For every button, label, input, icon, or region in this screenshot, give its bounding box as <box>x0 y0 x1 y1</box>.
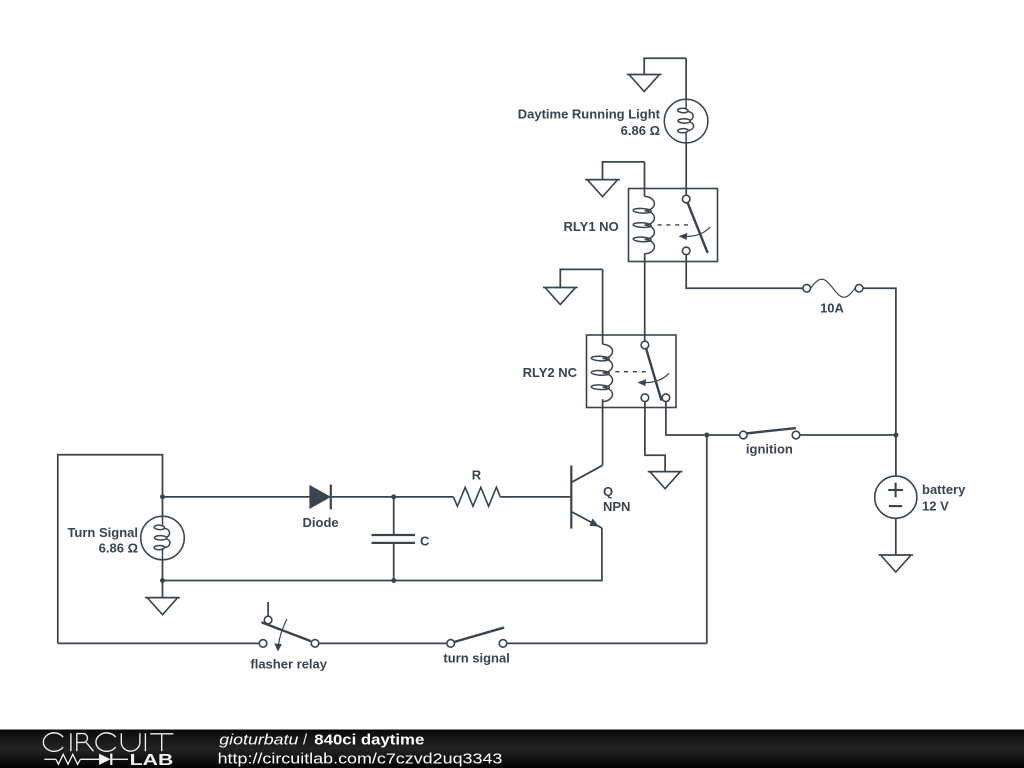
wire <box>58 642 259 644</box>
svg-text:R: R <box>472 468 482 483</box>
svg-text:gioturbatu: gioturbatu <box>219 733 298 749</box>
svg-text:flasher relay: flasher relay <box>250 657 327 672</box>
svg-text:turn signal: turn signal <box>443 651 509 666</box>
fuse 10A <box>803 279 863 315</box>
transistor Q NPN <box>571 465 630 528</box>
switch turn signal <box>443 628 509 666</box>
wire <box>706 435 708 643</box>
wire <box>162 581 164 598</box>
svg-text:http://circuitlab.com/c7czvd2u: http://circuitlab.com/c7czvd2uq3343 <box>218 750 503 767</box>
wire <box>895 435 897 476</box>
CircuitLab logo resistor-diode glyph <box>44 754 128 765</box>
wire <box>800 434 894 436</box>
node <box>893 433 898 438</box>
resistor R <box>453 468 500 507</box>
svg-text:C: C <box>420 534 430 549</box>
node <box>391 578 396 583</box>
ground <box>543 269 603 304</box>
wire <box>685 143 687 195</box>
wire <box>666 402 704 435</box>
svg-text:NPN: NPN <box>603 499 630 514</box>
svg-text:LAB: LAB <box>130 752 174 768</box>
wire <box>644 254 646 341</box>
svg-text:Turn Signal: Turn Signal <box>67 525 138 540</box>
wire <box>863 288 896 432</box>
wire <box>396 528 602 581</box>
node <box>391 494 396 499</box>
diode Diode <box>303 485 339 531</box>
wire <box>685 58 687 99</box>
wire <box>58 455 163 644</box>
svg-text:12 V: 12 V <box>922 498 949 513</box>
ground <box>145 598 180 615</box>
svg-text:Q: Q <box>603 484 613 499</box>
wire <box>332 496 454 498</box>
wire <box>645 402 665 472</box>
footer credit line: gioturbatu / 840ci daytime <box>219 733 424 749</box>
ground <box>648 472 683 489</box>
svg-text:6.86 Ω: 6.86 Ω <box>99 540 138 555</box>
svg-text:10A: 10A <box>820 301 844 316</box>
battery V1 12V <box>875 476 966 518</box>
svg-text:6.86 Ω: 6.86 Ω <box>621 123 660 138</box>
lamp Daytime Running Light 6.86 ohm <box>518 99 708 143</box>
relay RLY1 NO <box>564 189 718 262</box>
wire <box>163 580 394 582</box>
wire <box>707 434 740 436</box>
svg-text:ignition: ignition <box>746 442 793 457</box>
wire <box>163 496 311 498</box>
lamp Turn Signal 6.86 ohm <box>67 497 184 581</box>
wire <box>644 162 646 197</box>
svg-text:Diode: Diode <box>303 515 339 530</box>
svg-text:RLY1 NO: RLY1 NO <box>564 219 619 234</box>
svg-text:RLY2 NC: RLY2 NC <box>523 365 578 380</box>
wire <box>507 642 707 644</box>
node <box>160 578 165 583</box>
ground <box>878 555 913 572</box>
svg-text:battery: battery <box>922 482 966 497</box>
wire <box>602 399 604 465</box>
relay RLY2 NC <box>523 335 676 408</box>
ground <box>585 162 644 197</box>
footer bar <box>0 730 1024 768</box>
wire <box>895 518 897 555</box>
svg-text:840ci daytime: 840ci daytime <box>314 733 424 749</box>
wire <box>686 255 803 289</box>
CircuitLab logo wordmark LAB <box>130 752 174 768</box>
wire <box>500 496 571 498</box>
CircuitLab logo wordmark CIRCUIT <box>43 733 173 751</box>
switch ignition <box>740 428 800 456</box>
node <box>160 494 165 499</box>
ground <box>627 58 686 91</box>
wire <box>602 269 604 344</box>
svg-text:Daytime Running Light: Daytime Running Light <box>518 107 661 122</box>
capacitor C <box>372 497 431 581</box>
node <box>704 433 709 438</box>
wire <box>319 642 447 644</box>
footer URL http://circuitlab.com/c7czvd2uq3343 <box>218 750 503 767</box>
switch flasher relay <box>250 602 327 672</box>
